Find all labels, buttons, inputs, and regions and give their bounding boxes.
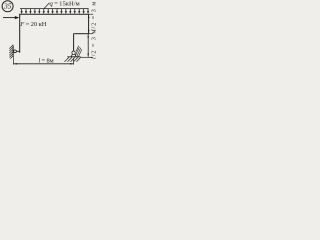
right dimension lower segment arrows — [87, 34, 89, 57]
left wall hatching — [9, 45, 13, 59]
svg-text:q = 15кН/м: q = 15кН/м — [50, 1, 81, 8]
pin support legs — [71, 54, 76, 57]
leader line from q label to load line — [44, 3, 50, 9]
top beam — [19, 13, 88, 15]
bottom dimension left extension line — [13, 57, 15, 64]
right dimension bottom tick at ground level — [81, 56, 93, 58]
left link hinge circle — [14, 50, 17, 53]
left column — [19, 14, 21, 53]
background — [0, 0, 98, 72]
svg-text:l/2 = 3 м: l/2 = 3 м — [92, 29, 98, 59]
distributed load top line — [20, 8, 89, 10]
svg-text:35: 35 — [3, 3, 12, 11]
right dimension upper segment arrows — [88, 15, 90, 34]
right dimension top tick at beam level — [89, 13, 94, 15]
force F arrow — [3, 16, 19, 19]
right dimension mid tick at step level — [89, 33, 93, 35]
pin support ground line — [67, 56, 80, 58]
svg-text:l/2 = 3 м: l/2 = 3 м — [91, 1, 97, 31]
svg-text:l = 8м: l = 8м — [39, 58, 54, 65]
step beam — [74, 33, 89, 35]
bottom dimension right extension line — [73, 58, 75, 64]
svg-text:F = 20 кН: F = 20 кН — [19, 21, 47, 28]
right dimension lower segment line — [87, 34, 89, 57]
left link bar — [13, 50, 20, 52]
bottom dimension arrows — [14, 63, 74, 65]
left wall line — [12, 46, 14, 58]
pin support inclined hatched band — [76, 46, 82, 57]
right lower column — [73, 34, 75, 52]
right upper column — [88, 14, 90, 34]
problem number circle 35 — [2, 1, 13, 12]
pin support hinge circle — [72, 51, 75, 54]
bottom dimension line — [14, 63, 74, 65]
distributed load arrows — [21, 9, 90, 14]
pin support ground hatching — [65, 57, 81, 62]
